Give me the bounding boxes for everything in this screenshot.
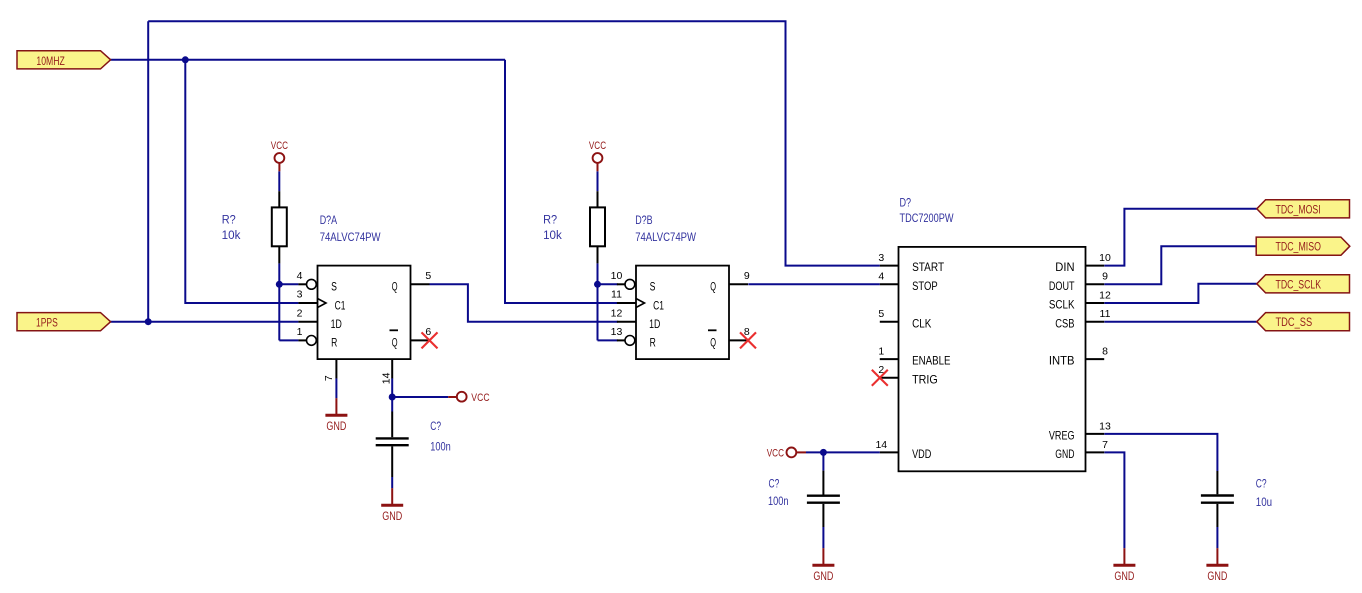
wire TDC CSB pin 11 to TDC_SS flag [1104, 321, 1257, 323]
global label TDC_MOSI [1257, 200, 1350, 218]
pin 10 DIN (TDC) [1086, 265, 1105, 267]
power flag VCC above R2 [593, 153, 603, 163]
svg-text:12: 12 [611, 307, 623, 319]
svg-text:GND: GND [1207, 569, 1227, 583]
svg-text:GND: GND [813, 569, 833, 583]
global label TDC_SCLK [1257, 275, 1350, 293]
svg-text:100n: 100n [430, 441, 451, 453]
svg-text:GND: GND [1055, 447, 1074, 461]
wire 1PPS vertical from top rail to 1PPS net [147, 21, 149, 322]
svg-text:R?: R? [222, 215, 236, 227]
pin 6 Q-bar no-connect [411, 339, 430, 341]
wire TDC DIN pin 10 to TDC_MOSI flag [1104, 209, 1257, 266]
svg-text:C?: C? [769, 479, 780, 491]
svg-text:DIN: DIN [1055, 260, 1074, 274]
svg-text:D?B: D?B [635, 215, 653, 227]
power flag VCC at TDC VDD [787, 448, 797, 458]
svg-text:9: 9 [744, 270, 750, 282]
svg-text:11: 11 [611, 289, 622, 301]
pin 7 GND (TDC) [1086, 451, 1105, 453]
resistor R2 10k pullup [597, 191, 599, 207]
svg-text:Q: Q [392, 280, 398, 294]
no-connect X at TRIG pin 2 [872, 370, 888, 386]
svg-text:R: R [331, 336, 337, 350]
global label 10MHZ [17, 51, 111, 69]
svg-text:GND: GND [382, 509, 402, 523]
pin 12 1D [617, 321, 636, 323]
pin 9 Q [729, 283, 748, 285]
wire R1 pullup net: VCC stub to resistor [278, 171, 280, 191]
global label TDC_MISO [1256, 237, 1350, 255]
svg-text:13: 13 [611, 326, 623, 338]
svg-text:C?: C? [1256, 479, 1267, 491]
wire D?A Q pin 5 to D?B 1D pin 12 [430, 284, 618, 321]
pin 4 S [298, 283, 306, 285]
svg-text:1D: 1D [331, 317, 342, 331]
pin 14 VCC of D?A [391, 359, 393, 378]
wire TDC SCLK pin 12 to TDC_SCLK flag [1104, 284, 1257, 303]
wire C2 bottom to GND [822, 527, 824, 548]
wire 10MHZ drop to D?A clock pin 3 [185, 60, 298, 303]
svg-text:3: 3 [878, 252, 884, 264]
svg-text:1PPS: 1PPS [36, 317, 58, 330]
pin 8 Q-bar no-connect [729, 339, 748, 341]
wire TDC DOUT pin 9 to TDC_MISO flag [1104, 246, 1256, 284]
flip-flop D?B body 74ALVC74PW [636, 266, 729, 360]
svg-text:D?: D? [900, 198, 912, 210]
svg-text:10k: 10k [222, 230, 241, 242]
svg-text:VCC: VCC [471, 392, 489, 404]
flip-flop D?A body 74ALVC74PW [318, 266, 411, 360]
wire R2 pullup net: VCC stub to resistor [597, 171, 599, 191]
global label TDC_SS [1257, 313, 1350, 331]
pin 4 STOP (TDC) [880, 283, 899, 285]
svg-text:1D: 1D [649, 317, 660, 331]
junction R2 / S pin node [594, 281, 601, 288]
pin 7 GND of D?A [335, 359, 337, 378]
svg-text:14: 14 [875, 439, 887, 451]
ground below C2 [822, 548, 824, 565]
svg-text:SCLK: SCLK [1049, 298, 1075, 312]
svg-text:5: 5 [878, 308, 884, 320]
svg-text:8: 8 [1102, 346, 1108, 358]
wire D?B Q pin 9 to TDC STOP pin 4 [748, 283, 880, 285]
pin 11 CSB (TDC) [1086, 321, 1105, 323]
svg-text:74ALVC74PW: 74ALVC74PW [635, 232, 696, 244]
svg-text:VCC: VCC [271, 140, 288, 152]
wire TDC VREG pin 13 to C3 [1104, 434, 1217, 471]
svg-text:TRIG: TRIG [912, 372, 938, 386]
wire 1PPS from flag to D?A pin 2 1D [110, 321, 298, 323]
svg-text:2: 2 [297, 307, 303, 319]
svg-text:INTB: INTB [1049, 354, 1075, 368]
pin 10 S [617, 283, 625, 285]
wire D?A pin 14 to decoupling node [391, 378, 393, 397]
wire 10MHZ net: top rail from node A to TDC START [148, 21, 880, 265]
pin 5 CLK (TDC) [880, 321, 899, 323]
junction 1PPS node [145, 318, 152, 325]
svg-text:S: S [650, 280, 656, 294]
pin 1 ENABLE (TDC) [880, 358, 899, 360]
svg-text:100n: 100n [768, 496, 789, 508]
svg-text:9: 9 [1102, 271, 1108, 283]
svg-text:3: 3 [297, 289, 303, 301]
svg-text:DOUT: DOUT [1049, 279, 1075, 293]
ground at D?A pin 7 [335, 378, 337, 398]
wire 10MHZ drop to D?B clock pin 11 [505, 60, 618, 303]
wire VDD node down to C2 [822, 452, 824, 470]
svg-text:7: 7 [323, 375, 335, 381]
svg-text:Q: Q [710, 336, 716, 350]
svg-text:Q: Q [710, 280, 716, 294]
capacitor C2 100n at TDC VDD [822, 471, 824, 495]
global label 1PPS [17, 313, 111, 331]
wire R2 bottom to S and R pins of D?B [597, 263, 599, 340]
ground below C1 [391, 488, 393, 505]
svg-text:TDC_MOSI: TDC_MOSI [1276, 203, 1321, 216]
svg-text:CSB: CSB [1055, 316, 1074, 330]
svg-text:1: 1 [297, 326, 303, 338]
IC D? body TDC7200PW [899, 247, 1086, 471]
svg-text:4: 4 [297, 270, 303, 282]
power flag VCC above R1 [275, 153, 285, 163]
svg-text:10MHZ: 10MHZ [36, 55, 64, 68]
svg-text:CLK: CLK [912, 316, 931, 330]
wire C1 bottom to GND [391, 477, 393, 488]
svg-text:TDC_SCLK: TDC_SCLK [1276, 278, 1322, 291]
svg-text:13: 13 [1099, 420, 1111, 432]
pin 14 VDD (TDC) [880, 451, 899, 453]
svg-text:10: 10 [611, 270, 623, 282]
svg-text:1: 1 [878, 346, 884, 358]
pin 2 1D [298, 321, 317, 323]
pin 2 TRIG (TDC) [880, 377, 899, 379]
capacitor C1 100n at D?A pin 14 [391, 412, 393, 438]
svg-text:10: 10 [1099, 252, 1111, 264]
wire VCC to TDC VDD pin 14 [806, 451, 880, 453]
junction 10MHZ node [182, 56, 189, 63]
svg-text:S: S [331, 280, 337, 294]
svg-text:10u: 10u [1256, 497, 1272, 509]
svg-text:ENABLE: ENABLE [912, 354, 950, 368]
power flag VCC at D?A pin 14 [457, 392, 467, 402]
svg-text:14: 14 [380, 372, 392, 384]
svg-text:11: 11 [1100, 308, 1111, 320]
pin 12 SCLK (TDC) [1086, 302, 1105, 304]
ground below C3 [1216, 548, 1218, 565]
svg-text:C?: C? [430, 421, 441, 433]
pin 3 C1 clock [298, 302, 317, 304]
capacitor C3 10u at TDC VREG [1216, 471, 1218, 494]
resistor R1 10k pullup [278, 191, 280, 207]
wire TDC GND pin 7 to GND symbol [1104, 452, 1124, 548]
pin 13 R [617, 339, 625, 341]
junction VDD node [820, 449, 827, 456]
wire R1 bottom to S and R pins of D?A [278, 263, 280, 340]
svg-text:C1: C1 [653, 298, 664, 312]
svg-text:TDC_SS: TDC_SS [1276, 316, 1313, 329]
pin 13 VREG (TDC) [1086, 433, 1105, 435]
pin 11 C1 clock [617, 302, 636, 304]
junction pin14 decoupling node [389, 394, 396, 401]
pin 5 Q [411, 283, 430, 285]
wire C3 bottom to GND [1216, 527, 1218, 548]
wire 10MHZ horizontal from flag to FF clocks [110, 59, 505, 61]
pin 1 R [298, 339, 306, 341]
svg-text:GND: GND [326, 419, 346, 433]
pin 3 START (TDC) [880, 265, 899, 267]
svg-text:TDC_MISO: TDC_MISO [1276, 241, 1321, 254]
svg-text:VDD: VDD [912, 447, 931, 461]
svg-text:5: 5 [425, 270, 431, 282]
svg-text:12: 12 [1099, 289, 1111, 301]
svg-text:R: R [650, 336, 656, 350]
pin 8 INTB (TDC) [1086, 358, 1105, 360]
svg-text:GND: GND [1114, 569, 1134, 583]
svg-text:10k: 10k [543, 230, 562, 242]
svg-text:D?A: D?A [320, 215, 338, 227]
svg-text:START: START [912, 260, 944, 274]
pin 9 DOUT (TDC) [1086, 283, 1105, 285]
svg-text:Q: Q [392, 336, 398, 350]
svg-text:VREG: VREG [1049, 429, 1075, 443]
svg-text:74ALVC74PW: 74ALVC74PW [320, 232, 381, 244]
svg-text:VCC: VCC [767, 448, 784, 460]
ground at TDC pin 7 [1123, 548, 1125, 565]
svg-text:VCC: VCC [589, 140, 606, 152]
svg-text:R?: R? [543, 215, 557, 227]
junction R1 / S pin node [276, 281, 283, 288]
svg-text:STOP: STOP [912, 279, 938, 293]
svg-text:TDC7200PW: TDC7200PW [900, 213, 954, 225]
svg-text:C1: C1 [335, 298, 346, 312]
svg-text:7: 7 [1102, 439, 1108, 451]
svg-text:4: 4 [878, 271, 884, 283]
